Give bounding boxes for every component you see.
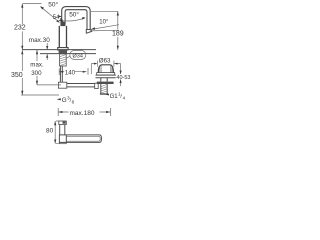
svg-text:50°: 50° xyxy=(48,0,58,8)
svg-text:350: 350 xyxy=(11,72,23,79)
svg-text:Ø34: Ø34 xyxy=(73,54,83,60)
svg-text:50°: 50° xyxy=(69,11,79,19)
svg-text:300: 300 xyxy=(31,70,42,77)
svg-text:max.: max. xyxy=(30,61,44,68)
svg-text:140: 140 xyxy=(65,69,76,76)
svg-text:G1: G1 xyxy=(110,94,119,100)
svg-text:G: G xyxy=(62,97,67,104)
svg-text:Ø63: Ø63 xyxy=(99,57,111,64)
svg-text:10°: 10° xyxy=(99,20,109,26)
svg-text:232: 232 xyxy=(14,25,26,32)
svg-text:max.180: max.180 xyxy=(70,110,95,117)
svg-text:80: 80 xyxy=(46,127,54,134)
svg-text:40-53: 40-53 xyxy=(116,75,130,81)
svg-text:189: 189 xyxy=(112,30,124,37)
